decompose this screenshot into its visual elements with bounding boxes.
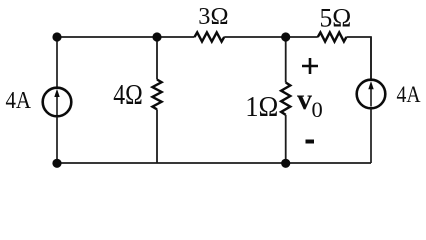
wire 4ohm branch bottom <box>156 109 158 163</box>
svg-text:v: v <box>297 83 312 116</box>
node dot bottom-left <box>52 159 61 168</box>
node dot bottom of 1ohm <box>281 159 290 168</box>
resistor R 1ohm <box>281 83 290 115</box>
minus sign of v0 <box>306 140 315 144</box>
arrow of source I2 <box>370 88 372 107</box>
current source I1 4A <box>43 88 72 117</box>
resistor R 3ohm <box>195 32 225 41</box>
wire right branch above source <box>370 37 372 80</box>
arrow of source I1 <box>56 96 58 116</box>
svg-text:4Ω: 4Ω <box>113 79 143 111</box>
wire bottom rail <box>57 162 371 164</box>
plus sign of v0 <box>302 58 318 74</box>
wire right branch below source <box>370 109 372 164</box>
wire 4ohm branch top <box>156 37 158 80</box>
node dot top of 4ohm <box>152 32 161 41</box>
wire top segment node A to node B <box>57 36 195 38</box>
node dot top-left <box>52 32 61 41</box>
svg-text:0: 0 <box>312 97 323 122</box>
svg-text:3Ω: 3Ω <box>198 3 228 30</box>
resistor R 5ohm <box>318 32 347 41</box>
svg-text:4A: 4A <box>6 87 32 114</box>
wire left branch top <box>56 37 58 88</box>
wire 1ohm branch top <box>285 37 287 83</box>
resistor R 4ohm <box>152 80 161 110</box>
svg-text:5Ω: 5Ω <box>320 4 352 33</box>
current source I2 4A <box>357 80 386 109</box>
wire node B to 5ohm <box>224 36 318 38</box>
svg-text:4A: 4A <box>397 82 421 108</box>
svg-text:1Ω: 1Ω <box>245 91 278 123</box>
wire 5ohm to top-right corner and down to source <box>346 37 371 80</box>
wire left branch bottom <box>56 117 58 164</box>
wire 1ohm branch bottom <box>285 115 287 163</box>
node dot top of 1ohm <box>281 32 290 41</box>
